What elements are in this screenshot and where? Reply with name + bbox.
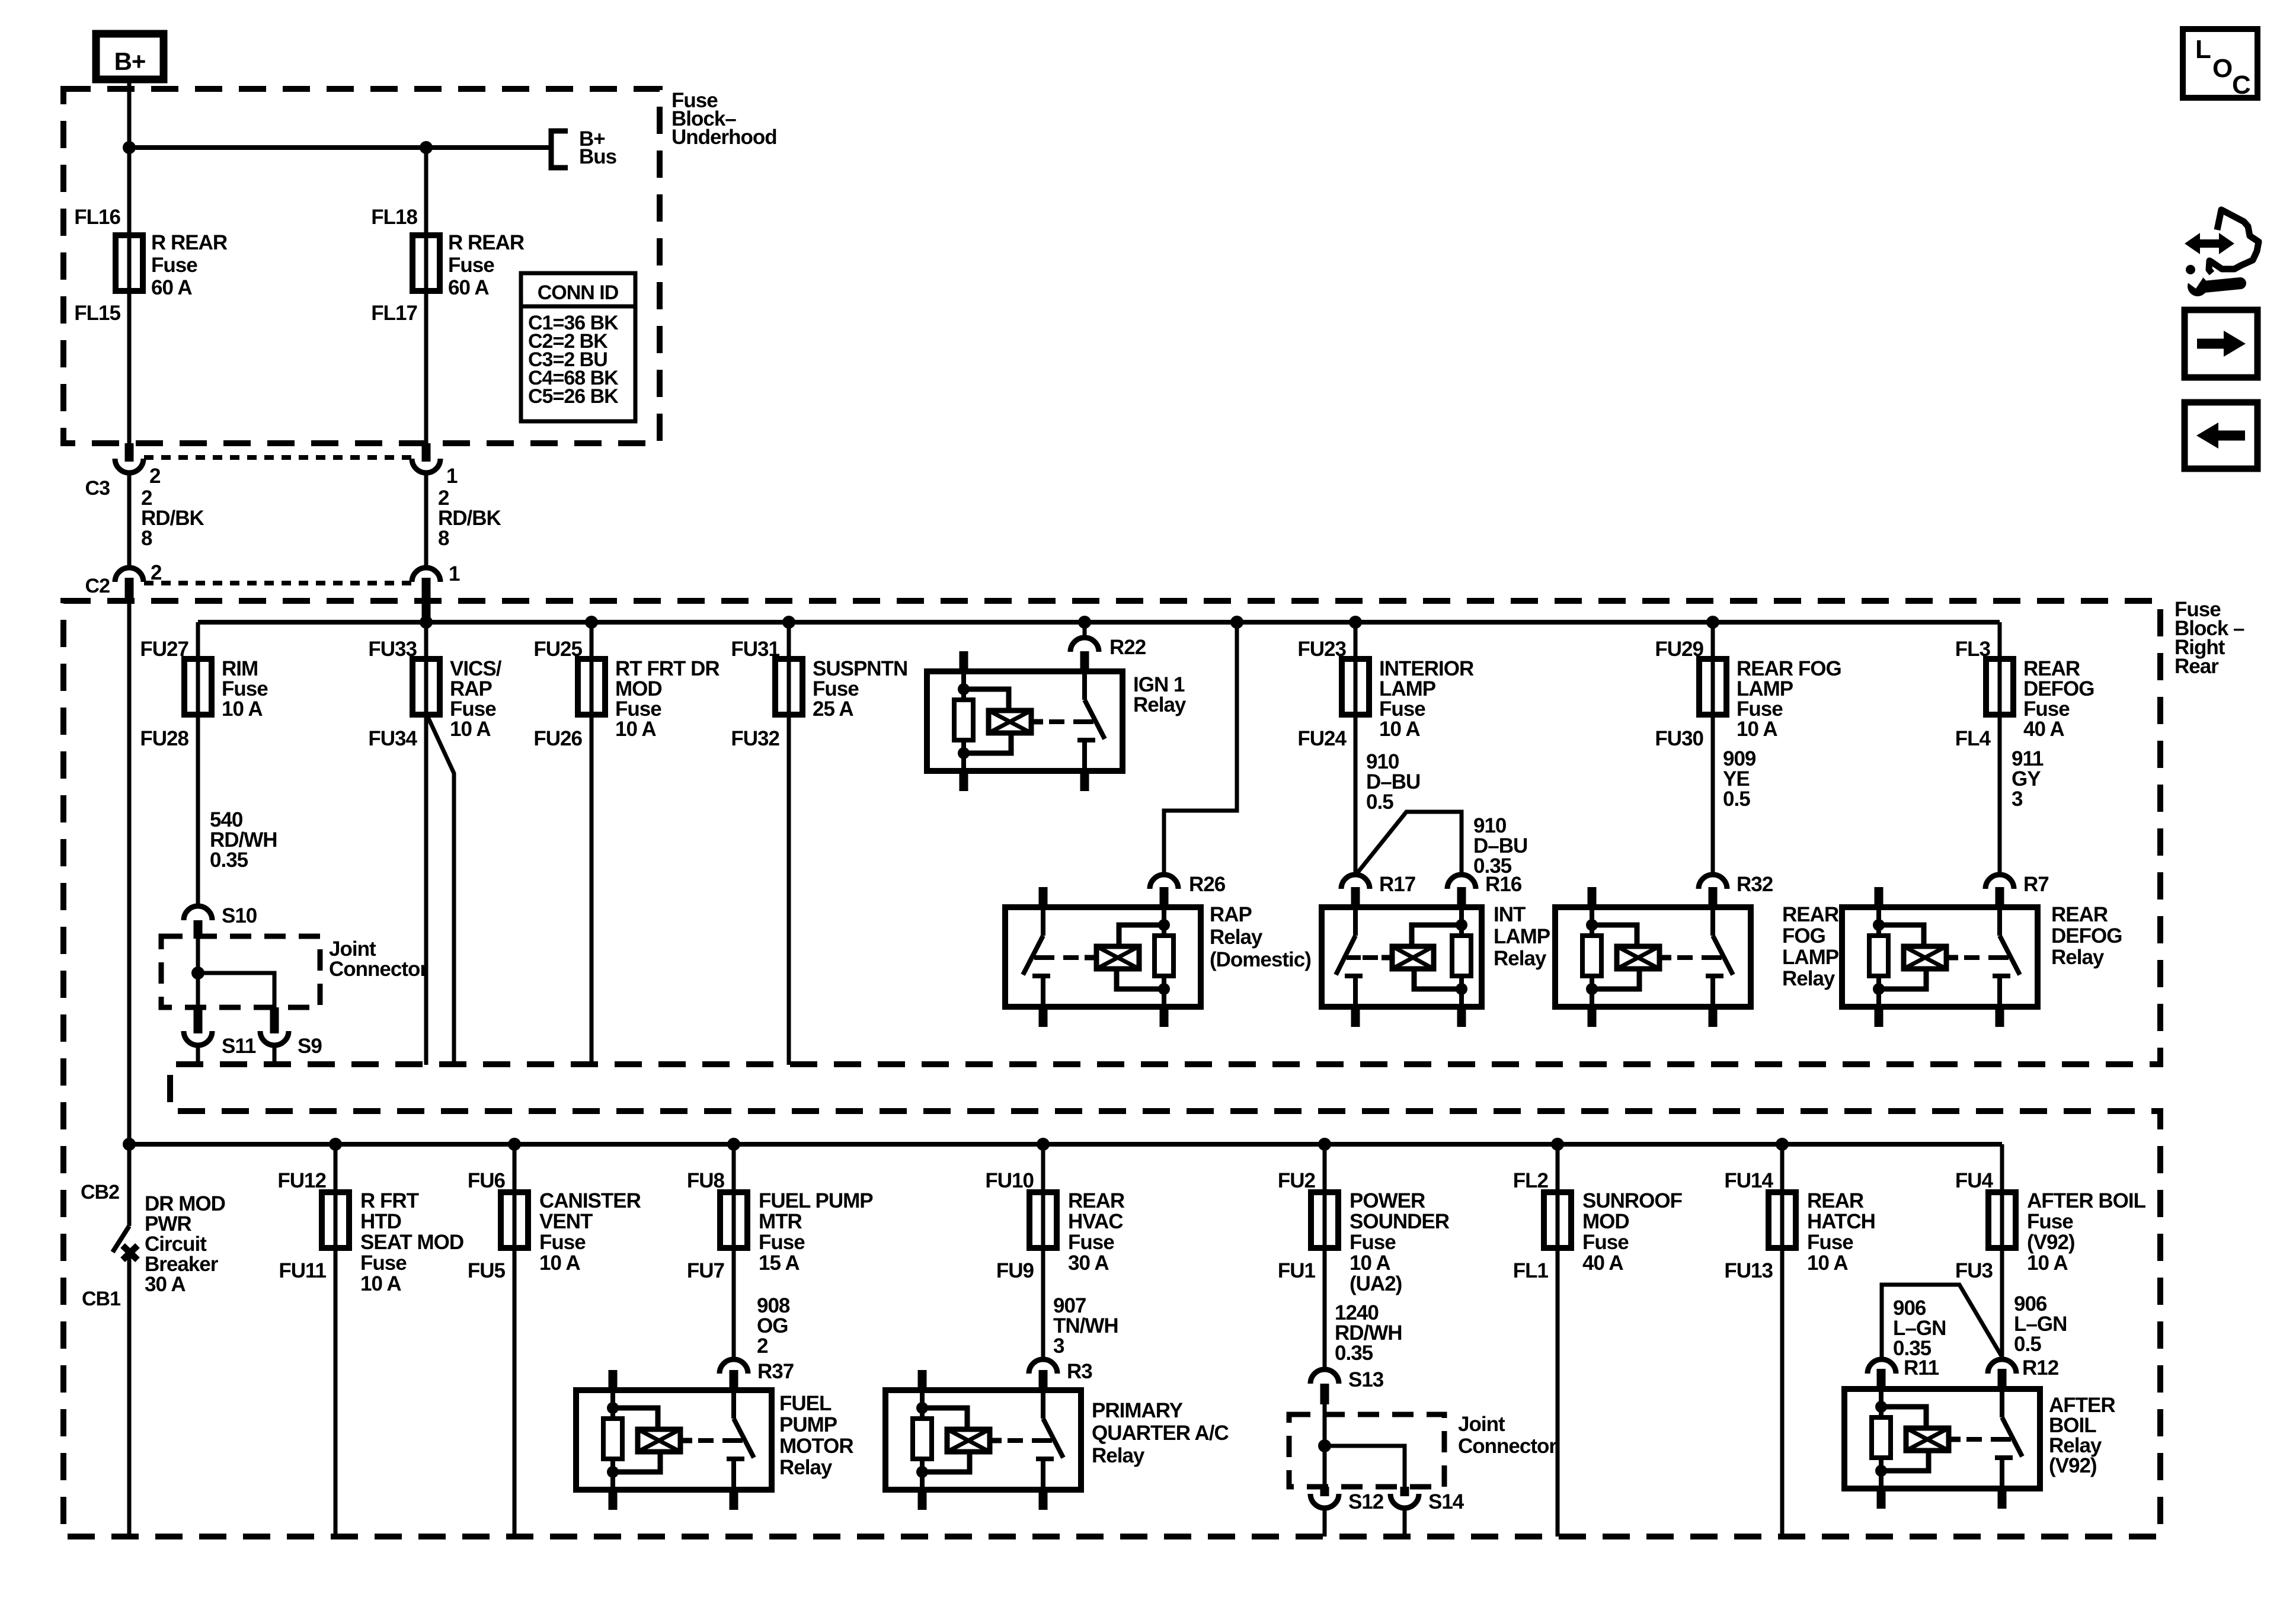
svg-text:0.5: 0.5 [2014,1333,2041,1356]
wire FU1 to S13 [1323,1247,1327,1370]
node junction [329,1138,342,1151]
splice R17 [1341,873,1415,896]
wire branch R12 to R11 [1882,1285,2002,1360]
fuse FU29/FU30 REAR FOG [1655,622,1841,750]
wire C2 pin1 to upper bus [424,619,428,622]
svg-text:C: C [2232,71,2250,100]
wire FU34 down [424,716,428,1065]
svg-text:FU9: FU9 [996,1259,1034,1282]
wire FU9 to R3 [1041,1247,1045,1360]
fuse FU10/FU9 REAR [985,1144,1124,1282]
connector C2 pin 1 [412,562,460,619]
svg-text:PUMP: PUMP [779,1413,837,1436]
svg-text:FU8: FU8 [687,1169,725,1192]
LOC box icon [2183,29,2257,100]
svg-text:MOTOR: MOTOR [779,1435,853,1458]
connector C3 pin 1 [412,443,458,488]
splice R7 [1985,873,2049,896]
splice R32 [1699,873,1773,896]
bus wire row 1 [198,620,2000,625]
svg-text:FU34: FU34 [368,727,417,750]
svg-text:3: 3 [1053,1334,1064,1358]
svg-text:Fuse: Fuse [1807,1231,1853,1254]
svg-text:FU1: FU1 [1278,1259,1316,1282]
svg-text:30 A: 30 A [145,1273,186,1296]
wire FU32 down [787,716,791,1065]
svg-text:FU10: FU10 [985,1169,1034,1192]
wire FL4 to R7 [1998,716,2002,875]
svg-text:R FRT: R FRT [360,1189,419,1212]
svg-text:1: 1 [446,465,458,488]
node junction [123,1138,136,1151]
svg-text:FU33: FU33 [368,638,417,661]
node junction [782,616,795,629]
svg-text:HTD: HTD [360,1210,401,1233]
fuse FL2/FL1 SUNROOF [1513,1144,1683,1282]
relay REAR FOG LAMP [1555,887,1839,1027]
svg-text:CONN ID: CONN ID [538,281,619,304]
bus wire row 2 [127,1142,2002,1147]
svg-text:Joint: Joint [1458,1413,1505,1436]
svg-text:C5=26 BK: C5=26 BK [528,385,619,408]
svg-text:10 A: 10 A [1379,718,1420,741]
relay PRIMARY QUARTER A/C [885,1370,1229,1510]
splice S14 [1390,1487,1464,1537]
svg-text:25 A: 25 A [813,697,853,721]
svg-text:Relay: Relay [1092,1444,1145,1467]
svg-text:FU5: FU5 [468,1259,506,1282]
wire bus to R22 [1083,622,1087,638]
svg-text:O: O [2212,54,2232,83]
svg-text:10 A: 10 A [1737,718,1777,741]
svg-text:FL1: FL1 [1513,1259,1549,1282]
fuse FL18 R REAR 60A [371,206,525,325]
wire [424,148,428,449]
relay INT LAMP [1322,887,1550,1027]
svg-text:MTR: MTR [759,1210,802,1233]
svg-text:10 A: 10 A [1350,1251,1390,1275]
CONN ID table [521,273,635,421]
splice S11 [184,1007,256,1065]
svg-text:S9: S9 [298,1035,322,1058]
svg-text:Fuse: Fuse [759,1231,805,1254]
wire branch R17 to R16 [1355,812,1462,875]
svg-text:LAMP: LAMP [1494,925,1550,948]
svg-text:FU25: FU25 [533,638,582,661]
svg-text:(V92): (V92) [2049,1454,2097,1477]
connector C3 pin 2 [85,443,161,500]
svg-text:REAR: REAR [2051,903,2108,926]
wire [196,939,200,1007]
wire FU3 to R12 [2000,1247,2004,1360]
svg-text:8: 8 [141,527,152,550]
svg-text:R11: R11 [1904,1356,1939,1379]
svg-text:Fuse: Fuse [448,254,494,277]
svg-text:0.35: 0.35 [1335,1342,1373,1365]
fuse FU14/FU13 REAR [1724,1144,1875,1282]
svg-text:0.5: 0.5 [1366,790,1393,814]
circuit breaker CB2/CB1 DR MOD PWR 30A [81,1144,225,1537]
svg-text:Fuse: Fuse [1068,1231,1114,1254]
svg-text:10 A: 10 A [360,1272,401,1295]
svg-text:FL17: FL17 [371,302,417,325]
joint connector box upper [161,936,428,1007]
svg-text:Connector: Connector [1458,1435,1557,1458]
svg-text:FL18: FL18 [371,206,417,229]
svg-text:HVAC: HVAC [1068,1210,1123,1233]
svg-text:Fuse: Fuse [539,1231,586,1254]
svg-text:AFTER BOIL: AFTER BOIL [2027,1189,2146,1212]
Fuse Block - Right Rear dashed box [63,598,2244,1537]
node junction [585,616,598,629]
wire branch to S9 [198,973,274,1007]
Fuse Block-Underhood dashed box [63,89,777,443]
svg-text:R REAR: R REAR [151,231,228,254]
svg-text:R REAR: R REAR [448,231,525,254]
arrow right box icon [2185,310,2257,377]
node junction [1551,1138,1564,1151]
wire bus to R26 [1230,616,1243,629]
node junction [123,141,136,154]
svg-text:40 A: 40 A [1582,1251,1623,1275]
wire FU34 branch [428,717,454,1065]
svg-text:(UA2): (UA2) [1350,1272,1402,1295]
node junction [1706,616,1719,629]
fuse FU23/FU24 INTERIOR [1297,622,1474,750]
fuse FU33/FU34 VICS/ [368,622,501,750]
svg-text:FU26: FU26 [533,727,582,750]
svg-text:FL4: FL4 [1955,727,1991,750]
svg-text:2: 2 [757,1334,768,1358]
svg-text:10 A: 10 A [1807,1251,1848,1275]
svg-text:FU11: FU11 [279,1259,326,1282]
node junction [727,1138,740,1151]
fuse FU8/FU7 FUEL PUMP [687,1144,873,1282]
svg-text:FL3: FL3 [1955,638,1991,661]
svg-text:SEAT MOD: SEAT MOD [360,1231,463,1254]
wire FU11 down [334,1247,338,1537]
wire FU7 to R37 [732,1247,736,1360]
svg-text:Fuse: Fuse [1582,1231,1629,1254]
node junction [1037,1138,1050,1151]
svg-text:POWER: POWER [1350,1189,1425,1212]
splice R12 [1988,1356,2059,1379]
relay REAR DEFOG [1842,887,2122,1027]
svg-text:FU6: FU6 [468,1169,506,1192]
svg-text:Rear: Rear [2175,655,2219,678]
svg-text:FU29: FU29 [1655,638,1703,661]
svg-text:MOD: MOD [1582,1210,1629,1233]
B+ terminal [96,34,164,79]
svg-text:(Domestic): (Domestic) [1210,948,1311,971]
svg-text:FU12: FU12 [277,1169,326,1192]
svg-text:3: 3 [2012,788,2023,811]
relay IGN 1 [927,651,1187,791]
svg-text:S12: S12 [1348,1490,1384,1513]
svg-text:R32: R32 [1737,873,1773,896]
fuse FL16 R REAR 60A [74,206,228,325]
node junction [191,966,204,980]
svg-text:FU31: FU31 [731,638,779,661]
splice R11 [1868,1356,1939,1379]
svg-text:FU3: FU3 [1955,1259,1993,1282]
splice R3 [1029,1359,1092,1383]
svg-text:FL15: FL15 [74,302,120,325]
svg-text:0.5: 0.5 [1723,788,1750,811]
svg-text:R22: R22 [1109,636,1146,659]
svg-text:FU32: FU32 [731,727,779,750]
svg-text:Connector: Connector [329,958,428,981]
svg-text:2: 2 [149,465,161,488]
svg-text:R12: R12 [2022,1356,2059,1379]
relay RAP (Domestic) [1005,887,1311,1027]
splice R22 [1070,636,1146,659]
svg-text:INT: INT [1494,903,1526,926]
node junction [420,141,433,154]
svg-text:LAMP: LAMP [1782,946,1839,969]
wire FU28 to S10 [196,716,200,907]
svg-text:QUARTER A/C: QUARTER A/C [1092,1422,1229,1445]
fuse FU25/FU26 RT FRT DR [533,622,720,750]
splice R37 [720,1359,794,1383]
svg-text:FU27: FU27 [140,638,188,661]
svg-text:10 A: 10 A [450,718,491,741]
svg-text:C2: C2 [85,575,110,597]
svg-text:R16: R16 [1485,873,1522,896]
svg-text:60 A: 60 A [448,276,489,299]
svg-text:DEFOG: DEFOG [2051,924,2122,948]
wire FU5 down [513,1247,517,1537]
svg-text:Fuse: Fuse [2027,1210,2073,1233]
joint connector box lower [1289,1413,1557,1487]
svg-text:FL2: FL2 [1513,1169,1549,1192]
relay FUEL PUMP MOTOR [576,1370,853,1510]
svg-text:Underhood: Underhood [671,126,777,149]
fuse FU27/FU28 RIM [140,622,268,750]
svg-text:R17: R17 [1379,873,1415,896]
svg-text:Relay: Relay [1494,947,1547,970]
arrow left box icon [2185,402,2257,469]
svg-text:CB2: CB2 [81,1181,119,1204]
svg-text:Fuse: Fuse [360,1251,407,1275]
svg-text:60 A: 60 A [151,276,192,299]
node junction [1318,1138,1331,1151]
svg-text:HATCH: HATCH [1807,1210,1875,1233]
svg-text:REAR: REAR [1782,903,1839,926]
svg-text:FU13: FU13 [1724,1259,1773,1282]
connector C2 pin 2 [85,561,162,602]
svg-text:FU14: FU14 [1724,1169,1773,1192]
svg-text:Relay: Relay [1133,693,1187,716]
svg-text:FU7: FU7 [687,1259,724,1282]
wire FL1 down [1556,1247,1560,1537]
svg-text:10 A: 10 A [615,718,656,741]
svg-text:SUNROOF: SUNROOF [1582,1189,1683,1212]
svg-text:FUEL PUMP: FUEL PUMP [759,1189,873,1212]
svg-text:S10: S10 [222,904,257,927]
wire 2 RD/BK 8 right [426,472,501,567]
svg-text:VENT: VENT [539,1210,593,1233]
svg-text:SOUNDER: SOUNDER [1350,1210,1450,1233]
svg-text:FU24: FU24 [1297,727,1347,750]
svg-text:Relay: Relay [1782,967,1835,990]
svg-text:10 A: 10 A [2027,1251,2068,1275]
splice S10 [184,904,257,939]
svg-text:S14: S14 [1428,1490,1464,1513]
svg-text:RAP: RAP [1210,903,1252,926]
svg-text:Relay: Relay [779,1456,833,1479]
splice S12 [1310,1487,1384,1537]
svg-text:R37: R37 [757,1360,794,1383]
svg-text:Fuse: Fuse [1350,1231,1396,1254]
wire B+ to bus [127,79,132,148]
splice S13 [1310,1368,1384,1404]
svg-text:8: 8 [438,527,449,550]
svg-text:(V92): (V92) [2027,1231,2075,1254]
relay AFTER BOIL (V92) [1844,1369,2115,1509]
splice R26 [1150,873,1226,896]
svg-text:15 A: 15 A [759,1251,800,1275]
svg-text:R7: R7 [2023,873,2049,896]
splice R16 [1447,873,1522,896]
node junction [1349,616,1362,629]
wire [127,148,132,449]
fuse FU4/FU3 AFTER BOIL [1955,1144,2146,1282]
wire branch to S14 [1325,1446,1405,1487]
wire C2 pin2 to lower bus [127,602,132,1144]
node junction [1230,616,1243,629]
svg-text:Fuse: Fuse [151,254,197,277]
svg-text:0.35: 0.35 [210,849,248,872]
wire FU26 down [590,716,594,1065]
svg-text:S13: S13 [1348,1368,1384,1391]
node junction [508,1138,521,1151]
fuse FL3/FL4 REAR [1955,622,2094,750]
svg-text:CB1: CB1 [82,1288,120,1310]
node junction [1776,1138,1789,1151]
wire 2 RD/BK 8 left [129,472,204,567]
fuse FU12/FU11 R FRT [277,1144,463,1295]
svg-text:Relay: Relay [2051,946,2105,969]
B+ Bus terminal [551,127,617,168]
svg-text:FU2: FU2 [1278,1169,1316,1192]
svg-text:C3: C3 [85,477,110,500]
svg-text:FU23: FU23 [1297,638,1346,661]
svg-text:R26: R26 [1189,873,1226,896]
fuse FU2/FU1 POWER [1278,1144,1450,1295]
svg-text:FOG: FOG [1782,924,1825,948]
svg-text:CANISTER: CANISTER [539,1189,641,1212]
door adjust icon [2180,210,2259,296]
svg-text:B+: B+ [114,47,146,75]
svg-text:Bus: Bus [579,145,617,168]
fuse FU31/FU32 SUSPNTN [731,622,907,750]
wire FU24 to R17 [1354,716,1358,875]
node junction [1078,616,1091,629]
svg-text:40 A: 40 A [2023,718,2064,741]
svg-text:FUEL: FUEL [779,1392,832,1415]
svg-text:REAR: REAR [1068,1189,1125,1212]
svg-text:FU30: FU30 [1655,727,1703,750]
svg-text:REAR: REAR [1807,1189,1864,1212]
svg-text:10 A: 10 A [222,697,263,721]
svg-text:PRIMARY: PRIMARY [1092,1399,1183,1422]
svg-text:FU28: FU28 [140,727,188,750]
svg-text:L: L [2195,35,2211,64]
svg-text:S11: S11 [222,1035,256,1058]
wire FU30 to R32 [1711,716,1715,875]
svg-text:FL16: FL16 [74,206,120,229]
wire [1323,1404,1327,1487]
svg-text:R3: R3 [1067,1360,1092,1383]
svg-text:1: 1 [449,562,460,585]
B+ bus wire [129,145,551,150]
fuse FU6/FU5 CANISTER [468,1144,641,1282]
splice S9 [260,1007,322,1065]
svg-text:FU4: FU4 [1955,1169,1994,1192]
svg-text:30 A: 30 A [1068,1251,1109,1275]
wire FU13 down [1780,1247,1785,1537]
connector C3 body line [144,455,411,460]
svg-text:Relay: Relay [1210,926,1263,949]
node junction [1318,1439,1331,1452]
connector C2 body line [144,581,411,585]
svg-text:10 A: 10 A [539,1251,580,1275]
node junction [420,616,433,629]
